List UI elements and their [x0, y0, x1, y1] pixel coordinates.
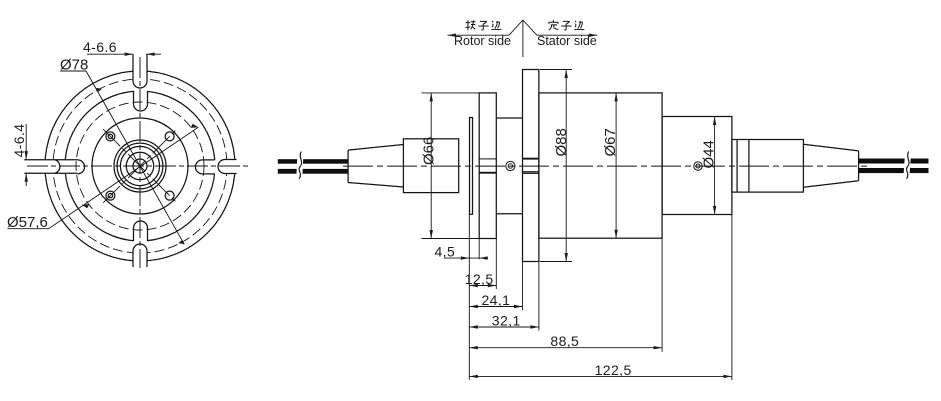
dim 4.5 [444, 257, 488, 259]
stator cone [803, 144, 858, 187]
svg-text:4,5: 4,5 [435, 243, 456, 259]
bottom inner slot [134, 221, 148, 241]
inner flange circle D66 [65, 91, 215, 241]
hub between flanges [496, 118, 522, 214]
svg-text:4-6.6: 4-6.6 [83, 39, 117, 55]
rotor-side lead cable [278, 159, 348, 174]
wire bars in flange plates [479, 158, 539, 174]
rotor/stator divider [448, 20, 598, 57]
side view centerline [343, 165, 868, 167]
center rings [114, 140, 166, 192]
svg-text:12,5: 12,5 [465, 271, 494, 287]
boss circle [92, 118, 188, 214]
extension lines bottom dims [469, 214, 732, 380]
dim 4-6.4 left slot [25, 124, 27, 186]
dim D67 [615, 93, 617, 238]
stator flange plate D88 [523, 70, 539, 262]
svg-text:Stator side: Stator side [537, 34, 597, 48]
dim 24.1 [469, 306, 522, 308]
stator exit ring [732, 140, 804, 193]
label stator side CN (ding zi bian) [549, 20, 584, 30]
rotor flange plate D66 [479, 93, 496, 239]
centerline vertical [139, 57, 141, 268]
svg-text:Ø88: Ø88 [553, 128, 570, 156]
hidden circle D57.6 (dashed) [76, 102, 204, 230]
dim 32.1 [469, 326, 539, 328]
retaining washer [470, 118, 473, 215]
svg-text:88,5: 88,5 [550, 333, 579, 349]
top inner slot [134, 91, 148, 111]
cable break left [296, 151, 303, 180]
outer flange circle D88 [45, 71, 235, 261]
stator-side lead cable [859, 159, 929, 174]
hidden circle D78 (dashed) [53, 79, 227, 253]
top outer slot 6.6 [133, 54, 147, 88]
bottom outer slot [133, 244, 147, 267]
svg-text:32,1: 32,1 [492, 313, 521, 329]
label rotor side CN (zhuan zi bian) [466, 20, 502, 30]
locating pin symbol left [506, 161, 515, 170]
centerline diagonal 135 [103, 129, 177, 203]
svg-text:Ø44: Ø44 [701, 140, 718, 168]
svg-text:Rotor side: Rotor side [454, 34, 511, 48]
dim D44 [714, 117, 716, 215]
dim D88 [540, 70, 572, 262]
dim 88.5 [469, 347, 662, 349]
rotor cylinder D66 body [403, 139, 458, 193]
bolt hole top-right [165, 132, 174, 141]
stator body D67 [539, 93, 662, 238]
svg-text:122,5: 122,5 [595, 362, 632, 378]
bolt hole top-left tapped [106, 132, 115, 141]
bolt hole bottom-left tapped [106, 191, 115, 200]
svg-text:Ø78: Ø78 [60, 57, 88, 74]
dim D57.6 leader [8, 127, 199, 228]
right inner slot [195, 160, 214, 174]
dim D78 leader [60, 71, 184, 244]
dim 122.5 [469, 375, 732, 377]
svg-text:Ø67: Ø67 [602, 128, 619, 156]
centerline horizontal [27, 165, 251, 167]
svg-text:4-6.4: 4-6.4 [11, 124, 27, 158]
slot cutout masks [22, 52, 258, 280]
svg-text:Ø57,6: Ø57,6 [7, 214, 48, 231]
svg-text:Ø66: Ø66 [421, 137, 438, 165]
centerline diagonal 45 [103, 129, 177, 203]
bolt hole bottom-right [165, 191, 174, 200]
rotor cone housing [348, 145, 403, 188]
locating pin symbol right [694, 162, 702, 170]
dim 4-6.6 top slot [87, 53, 161, 55]
dim D66 [422, 93, 480, 239]
right outer slot [218, 160, 236, 174]
left slots [24, 160, 84, 174]
stator small cylinder D44 [662, 117, 732, 215]
svg-text:24,1: 24,1 [482, 292, 511, 308]
dim 12.5 [469, 285, 496, 287]
cable break right [903, 151, 911, 181]
